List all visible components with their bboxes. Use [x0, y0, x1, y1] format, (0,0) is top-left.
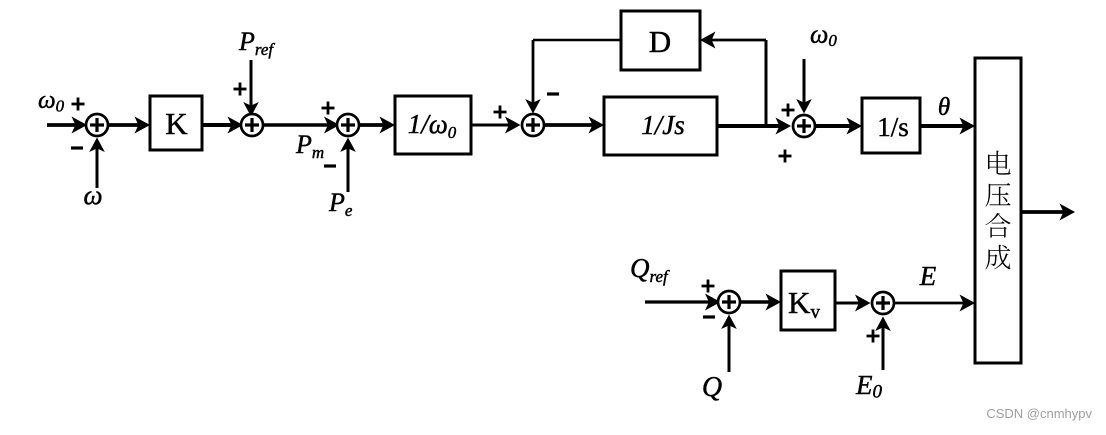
wire omega0 into S5: [796, 59, 812, 114]
label omega0 input: [38, 87, 65, 116]
minus sign S4: [547, 92, 559, 95]
summing junction S2: [241, 114, 263, 136]
label omega0 upper right: [810, 20, 837, 51]
label Qref: [630, 253, 670, 286]
label Q: [702, 372, 722, 403]
svg-text:K: K: [165, 106, 188, 141]
minus sign S1: [71, 146, 83, 149]
wire Q into S6: [721, 315, 737, 373]
svg-text:1/Js: 1/Js: [641, 110, 685, 140]
svg-text:CSDN @cnmhypv: CSDN @cnmhypv: [986, 406, 1092, 421]
summing junction S3: [337, 114, 359, 136]
label omega: [83, 180, 102, 210]
label Pref: [238, 27, 275, 59]
svg-text:D: D: [649, 24, 671, 59]
block voltage synthesis (dian ya he cheng): [975, 58, 1021, 363]
svg-text:θ: θ: [938, 94, 950, 121]
block K: [150, 96, 202, 150]
wire omega feedback into S1: [89, 138, 105, 189]
wire S5 to 1/s: [815, 118, 862, 135]
minus sign S6: [703, 315, 715, 318]
wire tap to D input: [700, 32, 766, 127]
summing junction S5: [793, 115, 815, 137]
wire Pe into S3: [340, 138, 356, 193]
minus sign S3: [324, 164, 336, 167]
label Pm: [295, 130, 324, 162]
summing junction S6: [718, 291, 740, 313]
plus sign S1: [72, 98, 85, 111]
plus sign S5 lower: [779, 150, 792, 163]
summing junction S1: [86, 114, 108, 136]
summing junction S4: [522, 114, 544, 136]
block 1/Js: [604, 97, 717, 155]
block 1/omega0: [395, 96, 471, 154]
plus sign S2: [234, 83, 247, 96]
wire K to sum S2: [202, 117, 243, 134]
svg-text:E: E: [919, 261, 937, 291]
block D: [621, 11, 700, 70]
block Kv: [781, 271, 835, 330]
summing junction S7: [872, 292, 894, 314]
wire S2 to sum S3: [263, 117, 340, 134]
wire 1/Js to sum S5: [717, 118, 791, 135]
label E0: [855, 370, 883, 403]
wire S4 to 1/Js: [544, 117, 605, 134]
plus sign S5 upper: [782, 104, 795, 117]
wire output of voltage synthesis: [1021, 204, 1075, 221]
svg-text:1/s: 1/s: [877, 112, 909, 142]
label theta: [938, 94, 950, 121]
wire S6 to Kv: [740, 294, 782, 311]
wire Qref input to sum S6: [645, 294, 721, 311]
plus sign S7: [867, 330, 880, 343]
wire S3 to 1/omega0 block: [359, 117, 396, 134]
wire 1/omega0 to sum S4: [471, 117, 521, 134]
wire S7 to voltage-synthesis block: [894, 295, 976, 312]
wire 1/s to voltage-synthesis block: [920, 118, 975, 135]
svg-text:Q: Q: [702, 372, 722, 403]
label E: [919, 261, 937, 291]
wire E0 into S7: [875, 317, 891, 371]
block 1/s: [862, 98, 920, 153]
wire S1 to K: [108, 117, 151, 134]
wire input to sum S1: [47, 117, 87, 134]
wire D output to S4: [525, 40, 621, 114]
plus sign S3: [322, 102, 335, 115]
watermark CSDN: [986, 406, 1092, 421]
label Pe: [328, 188, 353, 220]
wire Pref into S2: [243, 60, 259, 117]
plus sign S6: [702, 280, 715, 293]
wire Kv to sum S7: [835, 295, 871, 312]
svg-text:ω: ω: [83, 180, 102, 210]
plus sign S4: [494, 106, 507, 119]
